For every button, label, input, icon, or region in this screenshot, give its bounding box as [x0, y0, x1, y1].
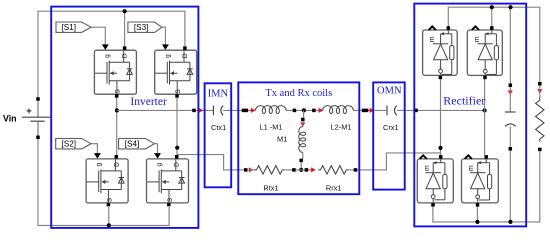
wire: Rtx1 row left port — [244, 167, 254, 172]
svg-text:Rrx1: Rrx1 — [326, 184, 342, 193]
D2 cathode port (top) — [490, 26, 494, 30]
wire: L2-M1 to Crx1 (into OMN) — [354, 108, 386, 113]
svg-text:D: D — [174, 162, 181, 167]
D4 cathode port (top) — [484, 155, 488, 159]
svg-text:[S3]: [S3] — [134, 23, 149, 32]
wire: rectifier DC- bottom rail — [433, 151, 540, 222]
wire: rectifier DC+ top rail — [448, 7, 540, 83]
svg-text:IMN: IMN — [208, 88, 229, 99]
From tag [S1] — [56, 22, 91, 32]
transistor S4 (MOSFET block) — [147, 159, 189, 203]
S1 drain port — [123, 46, 127, 50]
junction: DC- rail at filter capacitor — [508, 220, 512, 224]
wire: rectifier right leg column (D2 anode to D4 cathode) — [484, 77, 486, 155]
svg-text:g: g — [104, 54, 111, 58]
DC source Vin — [3, 97, 50, 139]
svg-text:L2-M1: L2-M1 — [331, 123, 352, 132]
From tag [S3] — [128, 22, 162, 32]
transistor S2 (MOSFET block) — [86, 159, 128, 203]
junction: coil center tap (top) — [302, 108, 306, 112]
wire: [S2] tag to S2 gate — [91, 144, 101, 159]
svg-text:S: S — [175, 89, 182, 94]
capacitor Crx1 — [383, 106, 399, 133]
S3 drain port — [183, 46, 187, 50]
svg-text:D: D — [122, 53, 129, 58]
S2 drain port — [115, 155, 119, 159]
S4 source port — [167, 203, 171, 207]
D3 anode port (bottom) — [431, 203, 435, 207]
wire: [S3] tag to S3 gate — [162, 27, 169, 50]
svg-text:[S2]: [S2] — [61, 140, 76, 149]
S4 drain port — [175, 155, 179, 159]
svg-text:Inverter: Inverter — [130, 96, 167, 108]
wire: Ctx1 to L1-M1 — [223, 108, 255, 113]
wire: inverter output B to Rtx1 (through IMN) — [177, 155, 244, 170]
annotation box: OMN — [373, 82, 405, 189]
resistor Rload — [536, 82, 544, 151]
svg-text:[S1]: [S1] — [61, 23, 76, 32]
wire: Rtx1 to bottom center junction — [285, 167, 316, 172]
svg-text:g: g — [96, 163, 103, 167]
annotation box: IMN — [205, 83, 232, 187]
inductor L1 -M1 — [255, 106, 286, 132]
S3 source port — [175, 94, 179, 98]
svg-text:m: m — [424, 165, 431, 171]
junction: rectifier left leg — [438, 146, 442, 150]
annotation box: Rectifier — [414, 4, 526, 227]
wire: [S4] tag to S4 gate — [154, 144, 161, 159]
svg-text:D: D — [113, 162, 120, 167]
wire: lower AC return to rectifier left leg — [366, 153, 440, 170]
svg-text:L1 -M1: L1 -M1 — [259, 123, 282, 132]
D2 anode port (bottom) — [483, 76, 487, 80]
svg-text:[S4]: [S4] — [125, 140, 140, 149]
D1 anode port (bottom) — [439, 76, 443, 80]
wire: Rrx1 to OMN lower node — [349, 168, 366, 172]
junction: coil center tap (bottom) — [299, 168, 303, 172]
svg-text:m: m — [468, 165, 475, 171]
wire: right leg S3 source to S4 drain — [176, 96, 178, 157]
svg-text:Tx and Rx coils: Tx and Rx coils — [265, 88, 332, 99]
svg-text:Ctx1: Ctx1 — [211, 123, 226, 132]
svg-text:M1: M1 — [277, 135, 287, 144]
svg-text:Rtx1: Rtx1 — [263, 184, 278, 193]
svg-text:D: D — [182, 53, 189, 58]
svg-text:Crx1: Crx1 — [383, 123, 399, 132]
wire: center tap to L2-M1 — [312, 108, 323, 113]
svg-text:g: g — [164, 54, 171, 58]
annotation box: Tx and Rx coils — [238, 82, 359, 194]
wire: rectifier left leg column (D1 anode to D3 cathode) — [440, 77, 442, 155]
D4 anode port (bottom) — [476, 203, 480, 207]
svg-text:Vin: Vin — [3, 113, 17, 123]
diode D3 (Diode block) — [417, 155, 453, 203]
resistor Rrx1 — [318, 166, 349, 193]
svg-text:m: m — [474, 36, 481, 42]
svg-text:OMN: OMN — [377, 86, 402, 97]
transistor S1 (MOSFET block) — [94, 50, 136, 94]
capacitor Cout (output filter) — [505, 83, 516, 150]
wire: L1-M1 to center tap junction — [286, 109, 313, 113]
From tag [S2] — [56, 139, 91, 149]
wire: left leg S1 source to S2 drain — [116, 96, 118, 157]
svg-text:S: S — [106, 197, 113, 202]
wire: [S1] tag to S1 gate — [91, 27, 109, 50]
wire: Vin+ to top DC rail feeding S1/S3 drains — [38, 11, 185, 117]
From tag [S4] — [119, 139, 155, 149]
S1 source port — [115, 94, 119, 98]
D1 cathode port (top) — [447, 26, 451, 30]
inductor L2-M1 — [323, 106, 354, 132]
diode D4 (Diode block) — [462, 155, 499, 203]
svg-text:m: m — [429, 36, 436, 42]
diode D1 (Diode block) — [423, 26, 458, 75]
D3 cathode port (top) — [439, 155, 443, 159]
annotation box: Inverter — [51, 7, 198, 228]
resistor Rtx1 — [254, 166, 285, 193]
wire: Vin- to bottom DC rail from S2/S4 sources — [38, 121, 169, 225]
wire: Crx1 to rectifier right leg (AC input) — [397, 109, 485, 113]
wire: inverter output A to Ctx1 (through IMN) — [117, 108, 213, 113]
junction on bottom DC rail at S2 source column — [107, 223, 111, 227]
junction: rectifier right leg AC node — [483, 108, 487, 112]
junction: inverter output B on right leg — [175, 146, 179, 150]
svg-text:S: S — [167, 197, 174, 202]
S2 source port — [107, 203, 111, 207]
junction: DC- rail at D4 anode — [475, 220, 479, 224]
svg-text:g: g — [156, 163, 163, 167]
diode D2 (Diode block) — [467, 26, 502, 75]
inductor M1 (mutual branch) — [277, 110, 306, 169]
capacitor Ctx1 — [211, 106, 226, 133]
junction: DC+ rail at D2 cathode — [490, 5, 494, 9]
transistor S3 (MOSFET block) — [155, 50, 197, 94]
junction: inverter output A on left leg — [115, 108, 119, 112]
svg-text:S: S — [115, 89, 122, 94]
junction: DC+ rail at filter capacitor — [508, 5, 512, 9]
junction on top DC rail at S1 drain column — [123, 9, 127, 13]
svg-text:Rectifier: Rectifier — [443, 93, 485, 107]
